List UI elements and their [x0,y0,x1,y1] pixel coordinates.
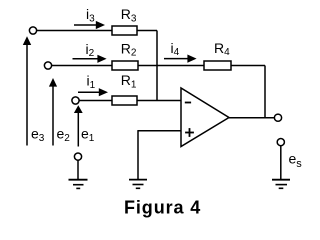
wire es to ground [280,146,282,180]
ground middle (op-amp plus) [129,180,147,189]
op-amp plus pin label [185,128,194,137]
wire row1 left [37,30,112,32]
resistor R2 [112,61,138,70]
node output terminal [274,114,281,121]
wire row3 left [79,100,112,102]
wire row3 to op-amp minus input [137,100,181,102]
wire R4 to feedback corner [231,65,265,67]
op-amp U1 [181,88,229,147]
wire row2 to R4 [138,65,204,67]
svg-text:Figura 4: Figura 4 [124,197,201,217]
resistor R1 [112,96,137,105]
current arrow i3 [74,21,105,29]
node reference terminal bottom-left [74,153,81,160]
voltage arrow e2 [49,78,57,146]
wire reference terminal to ground [77,160,79,179]
resistor R3 [112,26,137,35]
wire feedback vertical [264,66,266,118]
voltage arrow e1 [74,105,83,146]
resistor R4 [204,61,231,70]
node es terminal [277,139,284,146]
node input 1 terminal [72,97,79,104]
ground left [69,180,88,189]
wire summing node vertical [156,31,158,101]
current arrow i1 [78,88,108,96]
wire row1 right [137,30,157,32]
current arrow i2 [73,55,107,63]
wire output [229,117,274,119]
wire plus input to ground [137,130,139,179]
ground right (es) [272,180,290,189]
node input 2 terminal [44,62,51,69]
wire op-amp plus input [138,130,181,132]
wire row2 left [52,65,112,67]
node input 3 terminal [29,27,36,34]
op-amp minus pin label [185,102,191,104]
current arrow i4 [164,55,197,63]
voltage arrow e3 [23,36,31,145]
